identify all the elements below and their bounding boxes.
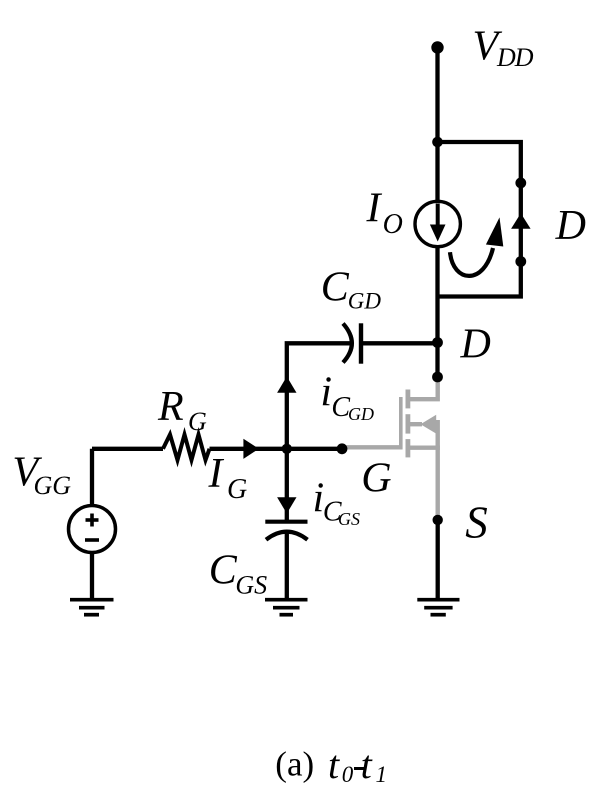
svg-text:GG: GG: [34, 471, 72, 500]
svg-text:G: G: [361, 455, 391, 501]
svg-text:1: 1: [376, 762, 388, 787]
svg-text:R: R: [157, 384, 184, 430]
svg-text:G: G: [188, 407, 207, 436]
svg-text:t: t: [328, 742, 340, 787]
svg-text:i: i: [320, 369, 332, 415]
svg-text:t: t: [361, 742, 373, 787]
svg-text:I: I: [208, 451, 225, 497]
svg-text:D: D: [555, 203, 586, 249]
svg-text:DD: DD: [496, 43, 534, 72]
svg-text:GS: GS: [338, 509, 360, 529]
svg-text:S: S: [465, 497, 488, 547]
svg-text:GD: GD: [348, 289, 382, 314]
svg-text:I: I: [366, 186, 383, 232]
svg-text:O: O: [383, 209, 403, 240]
svg-text:C: C: [209, 547, 238, 593]
svg-text:G: G: [227, 474, 247, 505]
svg-text:C: C: [321, 264, 350, 310]
svg-text:D: D: [460, 322, 491, 368]
svg-text:GS: GS: [235, 570, 267, 599]
svg-text:GD: GD: [348, 404, 374, 424]
svg-text:(a): (a): [275, 745, 314, 784]
